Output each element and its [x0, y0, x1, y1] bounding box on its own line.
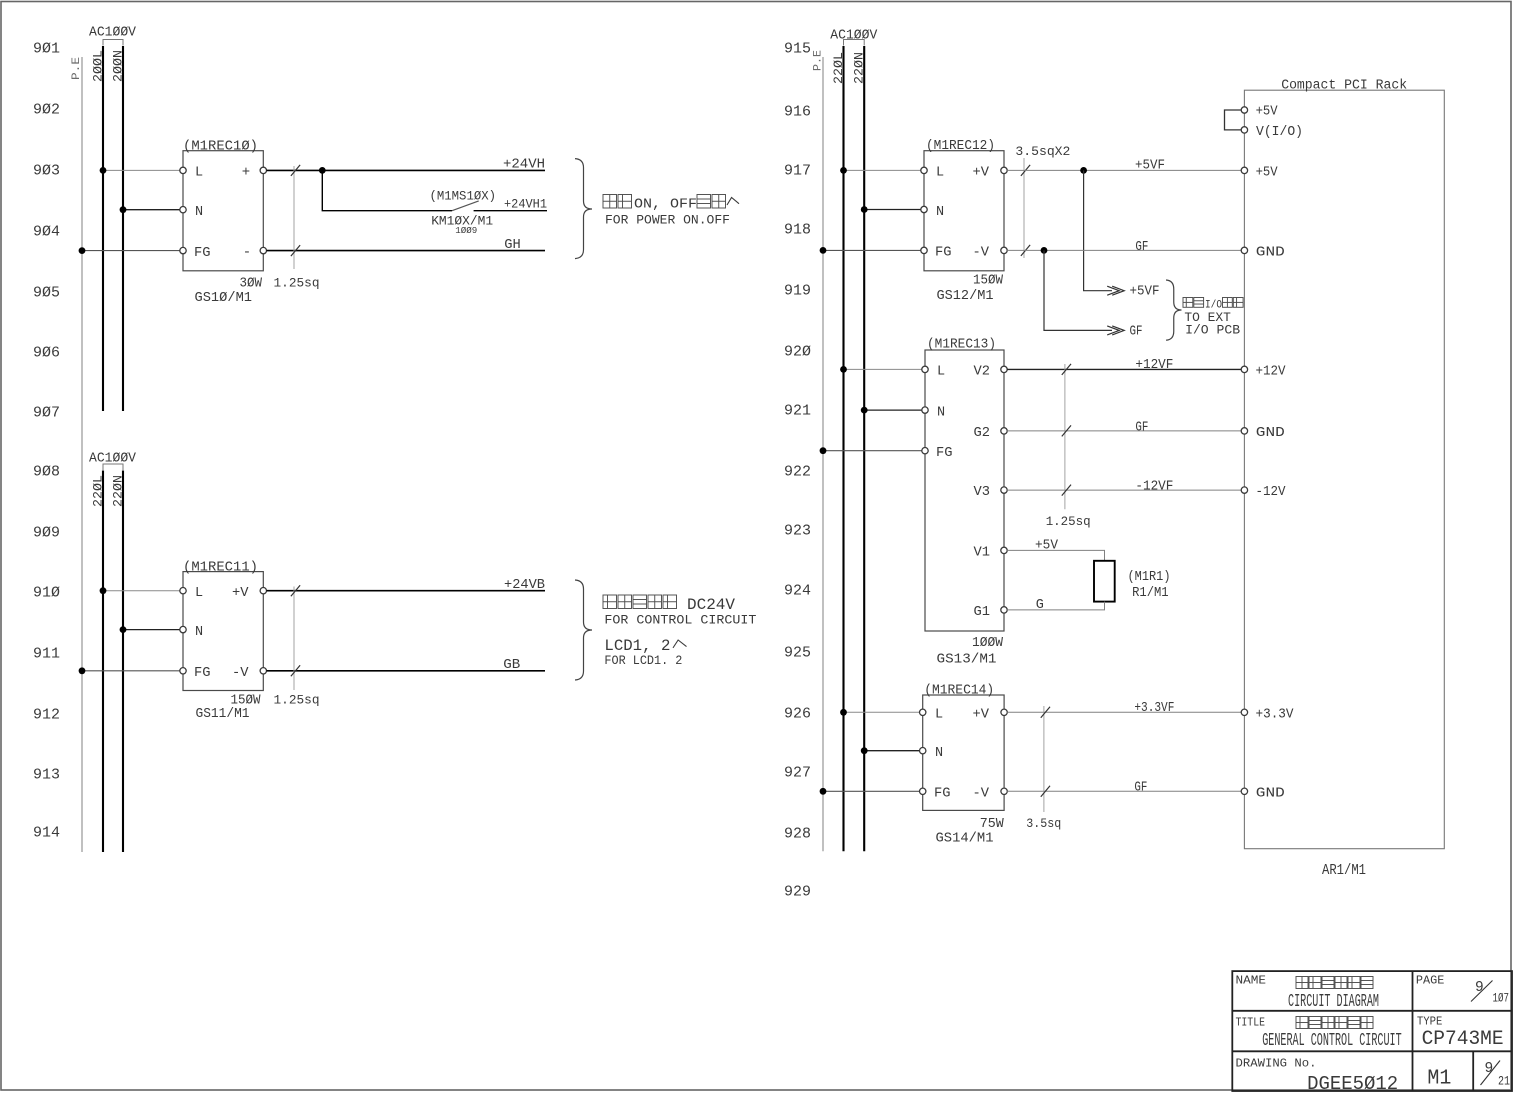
junction node +5VF branch	[1080, 167, 1087, 174]
svg-text:+5VF: +5VF	[1130, 285, 1160, 300]
cable tick on GF GS13	[1062, 425, 1071, 436]
svg-text:+: +	[242, 165, 250, 181]
note SEIGYO KAIRO-YO DC24V (japanese)	[603, 595, 735, 614]
svg-text:V(I/O): V(I/O)	[1256, 125, 1303, 140]
pin + GS10	[260, 167, 266, 173]
wire N input to GS10	[123, 209, 180, 211]
svg-text:9Ø3: 9Ø3	[33, 163, 60, 180]
wire FG input to GS14	[823, 790, 920, 792]
wire 200L (AC line L bus)	[102, 46, 104, 411]
junction dot 200N-N	[120, 206, 127, 213]
svg-text:+V: +V	[973, 166, 990, 181]
svg-text:+V: +V	[232, 586, 249, 601]
junction node on +24VH	[319, 167, 326, 174]
svg-text:22ØN: 22ØN	[111, 475, 126, 507]
pin -V GS11	[260, 668, 266, 674]
svg-text:(M1REC14): (M1REC14)	[924, 684, 994, 699]
pin FG GS13	[922, 448, 928, 454]
svg-text:L: L	[935, 707, 943, 722]
svg-text:GF: GF	[1130, 324, 1143, 339]
svg-text:-12V: -12V	[1256, 485, 1287, 500]
wire N input to GS14	[864, 750, 919, 752]
svg-text:928: 928	[784, 826, 811, 843]
svg-text:GND: GND	[1256, 786, 1285, 801]
svg-text:P.E: P.E	[813, 50, 825, 71]
svg-text:9Ø2: 9Ø2	[33, 102, 60, 119]
wire 220L right bus	[842, 46, 844, 851]
wire FG input to GS13	[823, 450, 922, 452]
cable tick on +5VF	[1021, 165, 1030, 176]
svg-text:G: G	[1036, 598, 1044, 613]
wire L input to GS11	[103, 590, 180, 592]
pin +V GS12	[1001, 167, 1007, 173]
svg-text:1.25sq: 1.25sq	[1046, 514, 1091, 529]
cable size line GS14	[1043, 706, 1045, 812]
svg-text:G2: G2	[974, 426, 991, 441]
terminal +3.3V	[1241, 709, 1247, 715]
svg-text:FOR POWER ON.OFF: FOR POWER ON.OFF	[605, 212, 730, 227]
terminal +12V	[1241, 366, 1247, 372]
junction dot 220N-N GS13	[861, 407, 868, 414]
svg-text:9Ø5: 9Ø5	[33, 285, 60, 302]
svg-text:+5V: +5V	[1035, 538, 1059, 553]
junction dot P.E-FG GS13	[820, 447, 827, 454]
title DENKI KAIRO SENZU (japanese)	[1296, 977, 1373, 989]
svg-text:921: 921	[784, 403, 811, 420]
svg-text:NAME: NAME	[1236, 975, 1267, 988]
svg-text:ON, OFF: ON, OFF	[634, 197, 697, 213]
terminal GND 2	[1241, 428, 1247, 434]
cable tick on +24VH	[291, 165, 300, 176]
power supply unit GS10/M1 (M1REC10) body	[183, 151, 263, 271]
pin N GS11	[180, 626, 186, 632]
svg-text:FOR LCD1. 2: FOR LCD1. 2	[604, 654, 682, 668]
title SOGO SEIGYO KAIRO (japanese)	[1296, 1017, 1373, 1029]
svg-text:-12VF: -12VF	[1135, 480, 1173, 495]
svg-text:FOR CONTROL CIRCUIT: FOR CONTROL CIRCUIT	[604, 612, 756, 627]
pin V1 GS13	[1001, 547, 1007, 553]
Compact PCI Rack AR1/M1 body	[1244, 90, 1444, 849]
pin G1 GS13	[1001, 607, 1007, 613]
pin V2 GS13	[1001, 366, 1007, 372]
left line-number column 901-914	[33, 41, 60, 842]
svg-text:(M1REC11): (M1REC11)	[183, 560, 258, 575]
pin N GS12	[921, 206, 927, 212]
svg-text:LCD1, 2: LCD1, 2	[604, 637, 670, 655]
right line-number column 915-929	[784, 41, 811, 901]
svg-text:1.25sq: 1.25sq	[274, 276, 320, 291]
wire branch down to contact	[322, 170, 452, 210]
svg-text:+3.3VF: +3.3VF	[1134, 701, 1174, 716]
svg-text:1.25sq: 1.25sq	[274, 692, 320, 707]
wire L input to GS12	[844, 169, 921, 171]
svg-text:22ØL: 22ØL	[91, 475, 106, 507]
svg-text:925: 925	[784, 645, 811, 662]
pin +V GS14	[1001, 709, 1007, 715]
pin L GS10	[180, 167, 186, 173]
svg-text:-V: -V	[973, 246, 990, 261]
svg-text:GS14/M1: GS14/M1	[936, 831, 994, 847]
svg-text:GF: GF	[1135, 420, 1148, 435]
title block grid	[1232, 971, 1512, 1091]
cable tick on +24VB	[291, 585, 300, 596]
svg-text:911: 911	[33, 646, 60, 663]
note DENGEN ON,OFF KAIRO-E (japanese)	[603, 195, 739, 213]
pin +V GS11	[260, 588, 266, 594]
wire GF to rack GS14	[1007, 790, 1241, 792]
svg-text:918: 918	[784, 222, 811, 239]
AC100V phase bracket	[103, 40, 123, 46]
brace to power on/off circuit	[575, 159, 592, 259]
svg-text:15ØW: 15ØW	[973, 274, 1004, 289]
resistor R1 (M1R1) body	[1094, 561, 1115, 602]
svg-text:+5VF: +5VF	[1135, 158, 1165, 173]
svg-text:N: N	[195, 625, 203, 640]
wire P.E right bus	[822, 57, 824, 851]
svg-text:PAGE: PAGE	[1416, 975, 1445, 988]
svg-text:9Ø4: 9Ø4	[33, 224, 60, 241]
svg-text:917: 917	[784, 163, 811, 180]
pin L GS12	[921, 167, 927, 173]
wire 220N (second AC bus)	[122, 471, 124, 853]
wire GB (GS11 -V output)	[267, 670, 545, 672]
svg-text:1Ø7: 1Ø7	[1493, 991, 1510, 1006]
junction node GF branch	[1041, 247, 1048, 254]
pin FG GS11	[180, 668, 186, 674]
svg-text:21: 21	[1498, 1074, 1510, 1089]
svg-text:Compact PCI Rack: Compact PCI Rack	[1281, 78, 1407, 93]
svg-text:GENERAL CONTROL CIRCUIT: GENERAL CONTROL CIRCUIT	[1262, 1031, 1402, 1051]
pin -V GS14	[1001, 788, 1007, 794]
svg-text:FG: FG	[194, 246, 211, 261]
wire GF branch to ext I/O	[1044, 250, 1112, 330]
wire N input to GS13	[864, 409, 922, 411]
cable size line GS13	[1064, 364, 1066, 509]
svg-text:929: 929	[784, 884, 811, 901]
svg-text:L: L	[936, 166, 944, 181]
pin N GS10	[180, 207, 186, 213]
junction dot P.E-FG GS11	[79, 667, 86, 674]
junction dot 220L-L GS11	[100, 587, 107, 594]
terminal GND 3	[1241, 788, 1247, 794]
svg-text:R1/M1: R1/M1	[1132, 586, 1169, 601]
svg-text:2ØØL: 2ØØL	[91, 50, 106, 82]
svg-text:+5V: +5V	[1256, 105, 1279, 120]
junction dot 220N-N GS11	[120, 626, 127, 633]
wire +24VH1 (after contact)	[474, 210, 547, 212]
svg-text:N: N	[937, 405, 945, 420]
wire L input to GS13	[844, 368, 922, 370]
svg-text:GH: GH	[504, 238, 521, 253]
svg-text:L: L	[195, 586, 203, 601]
junction dot 220N-N GS14	[861, 747, 868, 754]
wire GH (GS10 - output)	[267, 250, 545, 252]
power supply unit GS11/M1 (M1REC11) body	[183, 572, 263, 691]
wire 220L (second AC bus)	[102, 471, 104, 853]
svg-text:-V: -V	[232, 666, 249, 681]
svg-text:CIRCUIT DIAGRAM: CIRCUIT DIAGRAM	[1288, 992, 1379, 1012]
wire +24VH (GS10 + output)	[267, 169, 545, 171]
junction dot 220N-N GS12	[861, 206, 868, 213]
svg-text:TITLE: TITLE	[1236, 1017, 1266, 1030]
wire +12VF to rack	[1007, 368, 1241, 370]
svg-text:CP743ME: CP743ME	[1422, 1028, 1504, 1051]
svg-text:+24VH1: +24VH1	[504, 196, 547, 211]
arrow +5VF ext	[1107, 286, 1124, 295]
svg-text:3.5sq: 3.5sq	[1026, 816, 1061, 831]
svg-text:913: 913	[33, 767, 60, 784]
svg-text:+V: +V	[973, 707, 990, 722]
svg-text:923: 923	[784, 523, 811, 540]
svg-text:916: 916	[784, 104, 811, 121]
svg-text:912: 912	[33, 707, 60, 724]
svg-text:922: 922	[784, 464, 811, 481]
jumper +5V to V(I/O)	[1225, 110, 1242, 130]
svg-text:(M1MS1ØX): (M1MS1ØX)	[430, 188, 497, 203]
junction dot 220L-L GS13	[840, 366, 847, 373]
svg-text:M1: M1	[1427, 1067, 1451, 1090]
junction dot P.E-FG	[79, 247, 86, 254]
wire FG input to GS11	[82, 670, 180, 672]
wire +3.3VF to rack	[1007, 711, 1241, 713]
svg-text:FG: FG	[935, 246, 952, 261]
wire P.E (protective earth bus)	[81, 57, 83, 852]
AC100V phase bracket right	[844, 40, 865, 46]
junction dot 200L-L	[100, 167, 107, 174]
cable tick on -12VF	[1062, 485, 1071, 496]
wire 200N (AC neutral bus)	[122, 46, 124, 411]
sheet number 9/21	[1481, 1061, 1511, 1089]
pin L GS14	[920, 709, 926, 715]
wire FG input to GS12	[823, 249, 921, 251]
wire -12VF to rack	[1007, 489, 1241, 491]
cable size line GS11	[293, 587, 295, 691]
svg-text:9Ø6: 9Ø6	[33, 345, 60, 362]
svg-text:3.5sqX2: 3.5sqX2	[1015, 144, 1070, 159]
wire 220N right bus	[863, 46, 865, 851]
svg-text:9Ø1: 9Ø1	[33, 41, 60, 58]
svg-text:N: N	[936, 205, 944, 220]
svg-text:V1: V1	[974, 546, 991, 561]
svg-text:9Ø9: 9Ø9	[33, 525, 60, 542]
svg-text:AC1ØØV: AC1ØØV	[89, 25, 137, 41]
power supply unit GS14/M1 (M1REC14) body	[923, 695, 1004, 810]
brace ext I/O pcb	[1166, 280, 1182, 340]
svg-text:9Ø7: 9Ø7	[33, 405, 60, 422]
svg-text:914: 914	[33, 825, 60, 842]
svg-text:926: 926	[784, 706, 811, 723]
wire N input to GS12	[864, 209, 921, 211]
terminal +5V	[1241, 167, 1247, 173]
svg-text:V3: V3	[974, 485, 991, 500]
pin V3 GS13	[1001, 487, 1007, 493]
AC100V phase bracket 2	[103, 464, 123, 470]
svg-text:TYPE: TYPE	[1417, 1016, 1443, 1029]
power supply unit GS12/M1 (M1REC12) body	[924, 151, 1004, 271]
svg-text:+12V: +12V	[1256, 365, 1287, 380]
wire L input to GS10	[103, 169, 180, 171]
wire N input to GS11	[123, 629, 180, 631]
svg-text:+24VH: +24VH	[503, 158, 545, 173]
svg-text:FG: FG	[194, 666, 211, 681]
svg-text:91Ø: 91Ø	[33, 585, 60, 602]
svg-text:P.E: P.E	[71, 57, 83, 80]
svg-text:N: N	[195, 205, 203, 220]
wire V1 +5V to resistor	[1007, 550, 1104, 560]
svg-text:DRAWING No.: DRAWING No.	[1236, 1058, 1317, 1071]
svg-text:AR1/M1: AR1/M1	[1322, 862, 1366, 879]
svg-text:V2: V2	[974, 365, 991, 380]
svg-text:927: 927	[784, 765, 811, 782]
cable tick on +12VF	[1062, 364, 1071, 375]
wire +24VB (GS11 +V output)	[267, 590, 545, 592]
cable tick on GB	[291, 665, 300, 676]
pin N GS14	[920, 748, 926, 754]
cable tick on GF GS14	[1041, 786, 1050, 797]
cable size line GS10	[293, 166, 295, 269]
svg-text:GND: GND	[1256, 426, 1285, 441]
svg-text:GF: GF	[1134, 780, 1147, 795]
svg-text:9Ø8: 9Ø8	[33, 464, 60, 481]
svg-text:G1: G1	[974, 605, 991, 620]
brace to control circuit	[575, 580, 592, 680]
svg-text:L: L	[195, 166, 203, 181]
junction dot 220L-L GS14	[840, 709, 847, 716]
pin N GS13	[922, 407, 928, 413]
wire GF to rack GS12	[1007, 249, 1241, 251]
svg-text:2ØØN: 2ØØN	[111, 50, 126, 82]
junction dot P.E-FG GS14	[820, 788, 827, 795]
svg-text:FG: FG	[936, 446, 953, 461]
contact KM10X/M1 (M1MS10X) blade	[452, 201, 479, 211]
svg-text:919: 919	[784, 283, 811, 300]
pin G2 GS13	[1001, 428, 1007, 434]
svg-text:(M1R1): (M1R1)	[1128, 570, 1171, 585]
junction dot 220L-L GS12	[840, 167, 847, 174]
note KAKUCHO I/O KIBAN (japanese)	[1183, 298, 1243, 312]
terminal +5V top	[1241, 107, 1247, 113]
svg-text:GB: GB	[503, 658, 520, 673]
svg-text:GND: GND	[1256, 246, 1285, 261]
cable tick on GH	[291, 245, 300, 256]
terminal GND 1	[1241, 247, 1247, 253]
svg-text:GS12/M1: GS12/M1	[937, 288, 994, 304]
svg-text:-: -	[243, 245, 251, 261]
cable size line GS12	[1023, 158, 1025, 258]
wire L input to GS14	[844, 711, 920, 713]
power supply unit GS13/M1 (M1REC13) body	[925, 350, 1004, 631]
svg-text:+12VF: +12VF	[1135, 358, 1173, 373]
svg-text:DGEE5Ø12: DGEE5Ø12	[1307, 1073, 1398, 1093]
cable tick on GF GS12	[1021, 245, 1030, 256]
svg-text:N: N	[935, 746, 943, 761]
svg-text:I/O PCB: I/O PCB	[1185, 322, 1240, 337]
svg-text:GS1Ø/M1: GS1Ø/M1	[195, 290, 253, 306]
wire resistor to G1	[1007, 602, 1104, 610]
page number 9/107	[1471, 980, 1509, 1006]
pin L GS13	[922, 366, 928, 372]
svg-text:1ØØ9: 1ØØ9	[455, 225, 477, 236]
pin FG GS10	[180, 247, 186, 253]
svg-text:915: 915	[784, 41, 811, 58]
svg-text:-V: -V	[973, 787, 990, 802]
cable tick on +3.3VF	[1041, 707, 1050, 718]
svg-text:AC1ØØV: AC1ØØV	[830, 28, 878, 44]
svg-text:(M1REC1Ø): (M1REC1Ø)	[183, 140, 258, 155]
svg-text:+3.3V: +3.3V	[1256, 707, 1295, 722]
svg-text:+5V: +5V	[1256, 166, 1279, 181]
svg-text:924: 924	[784, 583, 811, 600]
wire GF to rack GS13	[1007, 430, 1241, 432]
pin FG GS12	[921, 247, 927, 253]
svg-text:FG: FG	[934, 787, 951, 802]
svg-text:(M1REC12): (M1REC12)	[926, 139, 995, 154]
pin - GS10	[260, 247, 266, 253]
pin -V GS12	[1001, 247, 1007, 253]
svg-text:22ØN: 22ØN	[852, 52, 867, 84]
svg-text:L: L	[937, 365, 945, 380]
svg-text:1ØØW: 1ØØW	[972, 636, 1004, 651]
svg-text:92Ø: 92Ø	[784, 344, 811, 361]
svg-text:(M1REC13): (M1REC13)	[927, 338, 996, 353]
terminal -12V	[1241, 487, 1247, 493]
svg-text:22ØL: 22ØL	[831, 52, 846, 84]
note LCD1,2-E (japanese)	[604, 637, 686, 655]
svg-text:GS13/M1: GS13/M1	[937, 652, 997, 668]
wire +5VF branch to ext I/O	[1084, 170, 1112, 290]
arrow GF ext	[1107, 326, 1124, 335]
junction dot P.E-FG GS12	[820, 247, 827, 254]
terminal V(I/O)	[1241, 127, 1247, 133]
wire +5VF to rack	[1007, 169, 1241, 171]
svg-text:GF: GF	[1135, 240, 1148, 255]
svg-text:+24VB: +24VB	[504, 578, 545, 593]
pin FG GS14	[920, 788, 926, 794]
wire FG input to GS10	[82, 250, 180, 252]
pin L GS11	[180, 588, 186, 594]
svg-text:GS11/M1: GS11/M1	[196, 706, 250, 722]
